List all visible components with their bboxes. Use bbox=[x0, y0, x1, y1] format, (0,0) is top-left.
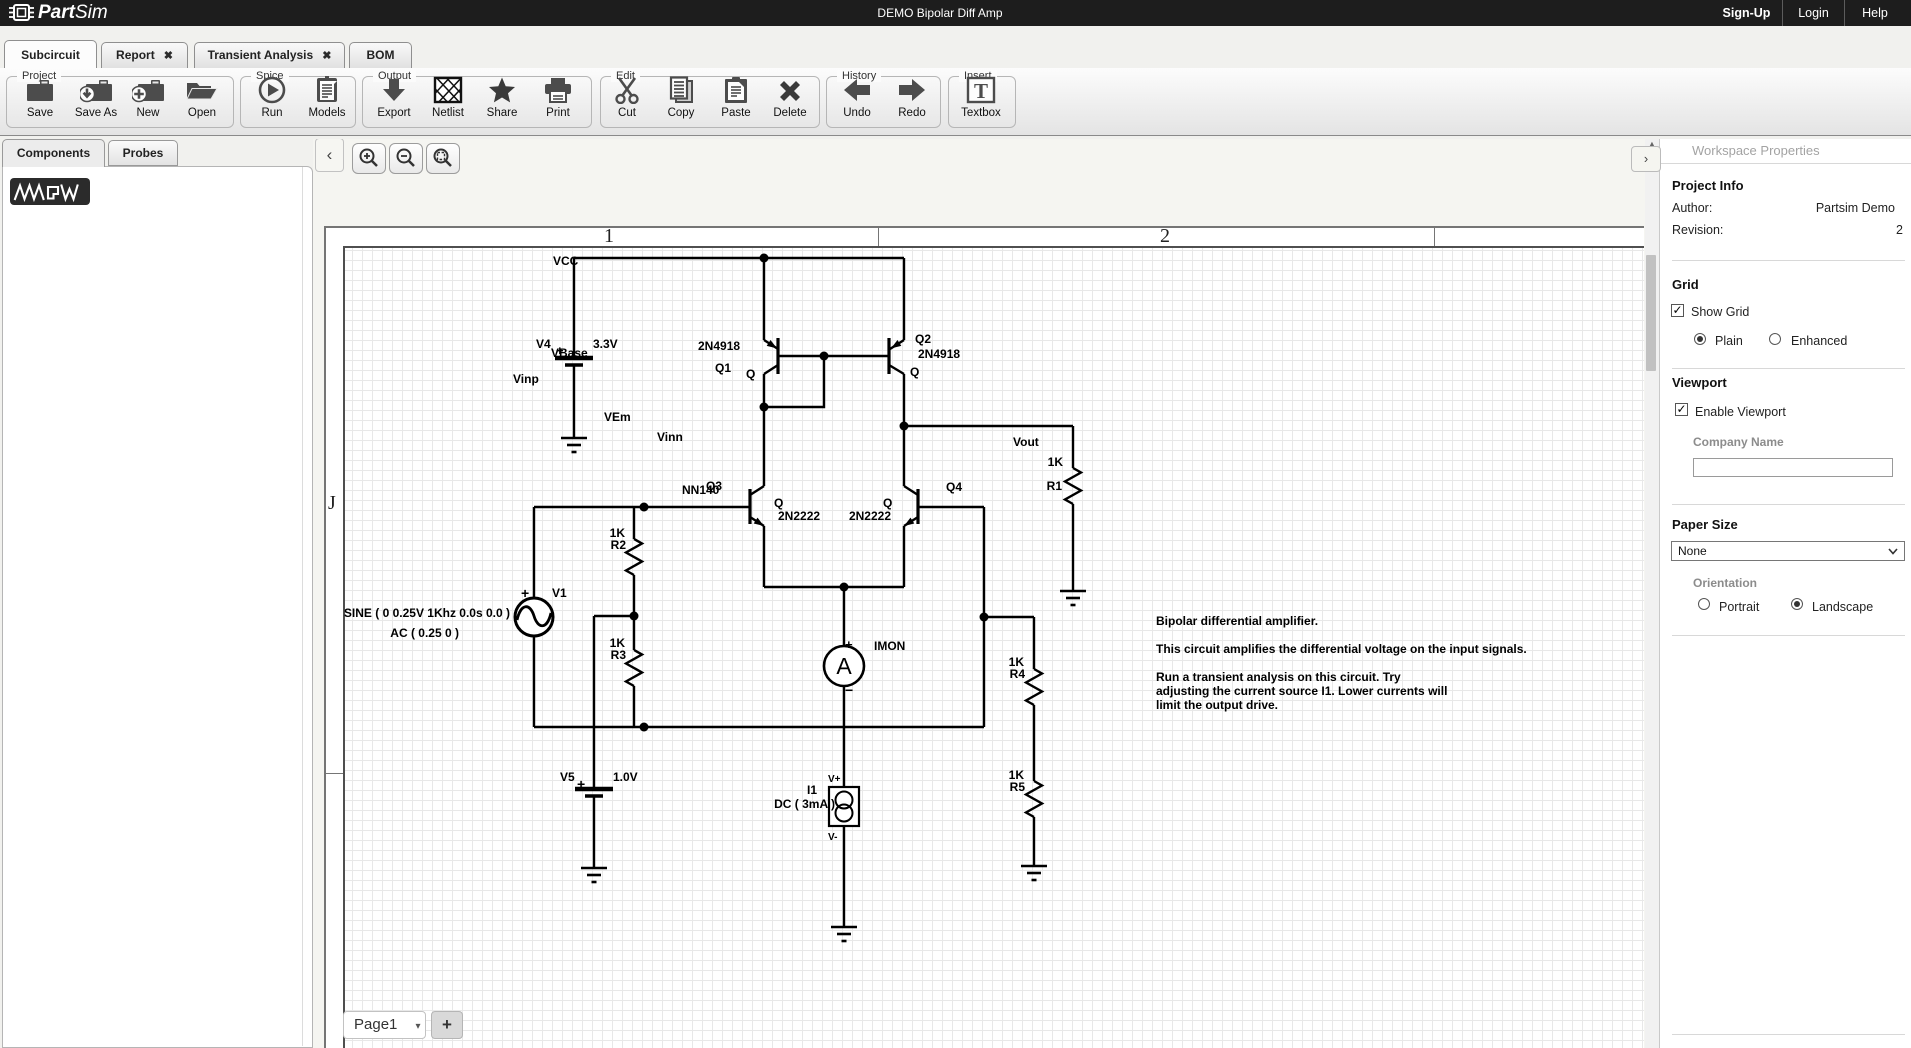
svg-text:+: + bbox=[845, 637, 853, 652]
svg-text:3.3V: 3.3V bbox=[593, 337, 618, 351]
svg-text:Vout: Vout bbox=[1013, 435, 1039, 449]
svg-text:R1: R1 bbox=[1047, 479, 1063, 493]
svg-text:2N4918: 2N4918 bbox=[698, 339, 740, 353]
svg-text:V+: V+ bbox=[828, 774, 841, 785]
svg-text:DC ( 3mA ): DC ( 3mA ) bbox=[774, 797, 835, 811]
svg-text:V1: V1 bbox=[552, 586, 567, 600]
svg-text:Bipolar differential amplifier: Bipolar differential amplifier. bbox=[1156, 614, 1318, 628]
svg-text:Q4: Q4 bbox=[946, 480, 962, 494]
svg-text:Run a transient analysis on th: Run a transient analysis on this circuit… bbox=[1156, 670, 1401, 684]
svg-text:Q: Q bbox=[746, 367, 755, 381]
svg-text:−: − bbox=[845, 682, 853, 698]
svg-text:+: + bbox=[556, 343, 564, 358]
svg-text:Vinp: Vinp bbox=[513, 372, 539, 386]
svg-text:This circuit amplifies the dif: This circuit amplifies the differential … bbox=[1156, 642, 1527, 656]
svg-text:2N4918: 2N4918 bbox=[918, 347, 960, 361]
svg-text:2N2222: 2N2222 bbox=[849, 509, 891, 523]
svg-text:limit the output drive.: limit the output drive. bbox=[1156, 698, 1278, 712]
svg-text:Q1: Q1 bbox=[715, 361, 731, 375]
svg-text:AC ( 0.25 0 ): AC ( 0.25 0 ) bbox=[390, 626, 459, 640]
svg-text:I1: I1 bbox=[807, 783, 817, 797]
svg-text:T: T bbox=[974, 79, 988, 103]
svg-text:Vinn: Vinn bbox=[657, 430, 683, 444]
svg-text:SINE ( 0 0.25V 1Khz 0.0s 0.0 ): SINE ( 0 0.25V 1Khz 0.0s 0.0 ) bbox=[344, 606, 510, 620]
svg-text:V4: V4 bbox=[536, 337, 551, 351]
svg-text:IMON: IMON bbox=[874, 639, 905, 653]
svg-text:Q: Q bbox=[883, 496, 892, 510]
svg-text:R3: R3 bbox=[611, 648, 627, 662]
svg-text:V5: V5 bbox=[560, 770, 575, 784]
svg-text:VEm: VEm bbox=[604, 410, 631, 424]
svg-text:1K: 1K bbox=[1048, 455, 1064, 469]
svg-text:1.0V: 1.0V bbox=[613, 770, 638, 784]
svg-text:Q3: Q3 bbox=[706, 479, 722, 493]
svg-text:R4: R4 bbox=[1010, 667, 1026, 681]
svg-text:Q2: Q2 bbox=[915, 332, 931, 346]
svg-text:VCC: VCC bbox=[553, 254, 579, 268]
svg-text:Q: Q bbox=[774, 496, 783, 510]
svg-text:adjusting the current source I: adjusting the current source I1. Lower c… bbox=[1156, 684, 1447, 698]
svg-text:Q: Q bbox=[910, 365, 919, 379]
svg-text:2N2222: 2N2222 bbox=[778, 509, 820, 523]
svg-text:R5: R5 bbox=[1010, 780, 1026, 794]
svg-text:+: + bbox=[577, 776, 585, 792]
svg-text:+: + bbox=[521, 585, 529, 601]
svg-text:R2: R2 bbox=[611, 538, 627, 552]
svg-text:V-: V- bbox=[828, 832, 837, 843]
svg-text:A: A bbox=[836, 653, 852, 679]
